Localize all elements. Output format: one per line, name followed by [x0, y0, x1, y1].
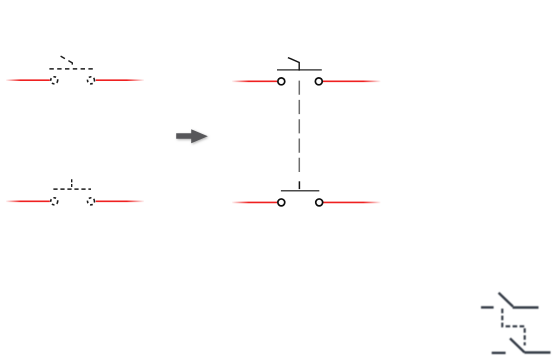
- arrow (transform direction indicator): [176, 129, 208, 143]
- switch S2 ghost (dashed preview, bottom-left): [51, 179, 95, 205]
- mechanical link (dashed, joins S3 and S4): [298, 81, 300, 172]
- wire W6 (top-right switch right side, fades out): [323, 80, 381, 82]
- wire W5 (top-right switch left side, fades in): [232, 80, 277, 82]
- icon top switch: right lead: [513, 306, 539, 308]
- ganged-switch icon (bottom-right corner): [481, 293, 551, 353]
- wire W3 (bottom-left, fades in at left): [6, 200, 50, 202]
- switch S4 (solid, bottom-right, plunger tick): [278, 181, 323, 206]
- icon bottom switch: left terminal: [492, 352, 506, 354]
- wire W8 (bottom-right switch right side, fades out): [323, 201, 381, 203]
- icon top switch: blade: [499, 293, 513, 307]
- switch S1 ghost (dashed preview, top-left): [49, 56, 94, 84]
- switch S3 (solid, top-right, lever actuator): [277, 58, 322, 85]
- icon link (dashed): [502, 309, 524, 346]
- icon top switch: left terminal: [481, 306, 494, 308]
- icon bottom switch: blade: [510, 338, 525, 352]
- wire W4 (bottom-left switch right side, fades out): [96, 200, 144, 202]
- wire W7 (bottom-right switch left side, fades in): [232, 201, 277, 203]
- icon bottom switch: right lead: [524, 351, 550, 353]
- wire W2 (top-left switch right side, fades out): [96, 79, 144, 81]
- wire W1 (top-left, fades in at left): [6, 79, 50, 81]
